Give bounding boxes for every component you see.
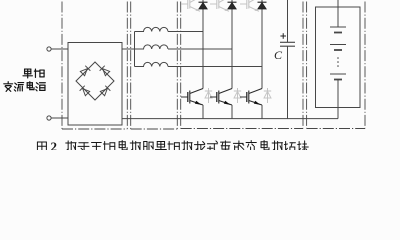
wire leg 2 emitter to DC- bus	[231, 105, 233, 119]
boundary box3 right edge	[302, 2, 304, 129]
wire phase B to inverter leg	[168, 48, 232, 50]
wire leg 1 emitter to DC- bus	[202, 105, 204, 119]
diode D2t top stub	[231, 0, 233, 2]
transistor S2b gate lead	[210, 96, 217, 98]
bridge diode D2 (right->top)	[100, 66, 110, 76]
diode D2t (upper, black)	[228, 2, 237, 9]
battery ellipsis dots	[337, 57, 339, 67]
battery cell 1 long plate	[330, 26, 346, 28]
boundary box2 bottom edge	[131, 128, 178, 130]
transistor S1b gate lead	[181, 96, 188, 98]
diode D3b (lower, faint)	[264, 88, 271, 103]
bridge diode D3 (bottom->left)	[80, 86, 90, 96]
diode D1b (lower, faint)	[205, 88, 212, 103]
caption: figure 2 title (clipped)	[37, 139, 308, 154]
svg-text:2: 2	[51, 139, 58, 150]
wire leg 3 emitter to DC- bus	[261, 105, 263, 119]
battery cell 1 short plate	[334, 32, 342, 34]
wire battery positive lead	[337, 0, 339, 27]
transistor S3b gate lead	[240, 96, 247, 98]
boundary box4 (battery pack) left edge	[306, 2, 308, 129]
boundary box4 right edge	[364, 2, 366, 129]
wire phase C to inverter leg	[168, 66, 262, 68]
boundary box1 bottom edge	[62, 128, 127, 130]
diode D3t top stub	[261, 0, 263, 2]
boundary box3 (inverter) left edge	[180, 2, 182, 129]
wire rectifier output to winding neutral	[122, 48, 135, 50]
bridge diamond	[76, 62, 114, 100]
transistor S3t (upper IGBT, faint)	[240, 0, 259, 11]
label: AC source text line2 (jiao-liu-dian-yuan)	[4, 82, 45, 92]
label: AC source text line1 (dan-xiang)	[23, 69, 44, 78]
wire AC top terminal to rectifier box	[51, 48, 68, 50]
transistor S3b (lower IGBT, black)	[247, 89, 262, 106]
wire battery negative lead	[337, 80, 339, 119]
battery cell N long plate	[330, 73, 346, 75]
transistor S1b (lower IGBT, black)	[188, 89, 203, 106]
diode D1t top stub	[202, 0, 204, 2]
battery cell 2 short plate	[334, 49, 342, 51]
inductor winding phase A	[135, 27, 168, 31]
terminal circle top (AC L)	[47, 47, 51, 51]
wire winding neutral vertical	[134, 32, 136, 67]
inductor winding phase C	[135, 62, 168, 66]
battery cell N short plate	[334, 79, 342, 81]
wire capacitor top lead	[287, 0, 289, 42]
boundary box2 (motor windings) left edge	[130, 2, 132, 130]
inductor winding phase B	[135, 45, 168, 49]
capacitor C plates	[280, 42, 295, 46]
battery cell 2 long plate	[330, 44, 346, 46]
boundary box1 right edge	[126, 2, 128, 130]
terminal circle bottom (AC N)	[47, 116, 51, 120]
diode D2b (lower, faint)	[234, 88, 241, 103]
wire DC- bus	[122, 118, 338, 120]
wire leg 3 vertical (midpoint)	[261, 9, 263, 89]
wire leg 1 vertical (midpoint)	[202, 9, 204, 89]
boundary box3 bottom edge	[181, 128, 303, 130]
wire phase A to inverter leg	[168, 31, 203, 33]
battery pack outer box	[316, 7, 361, 108]
svg-text:C: C	[274, 48, 283, 62]
boundary box2 right edge	[176, 2, 178, 130]
label + (capacitor polarity)	[280, 33, 286, 39]
transistor S1t (upper IGBT, faint)	[181, 0, 200, 11]
bridge diode D4 (bottom->right)	[100, 86, 110, 96]
bridge diode D1 (left->top)	[80, 66, 90, 76]
wire AC bottom terminal to rectifier box	[51, 117, 68, 119]
transistor S2t (upper IGBT, faint)	[210, 0, 229, 11]
diode D1t (upper, black)	[199, 2, 208, 9]
diode D3t (upper, black)	[258, 2, 267, 9]
wire leg 2 vertical (midpoint)	[231, 9, 233, 89]
bridge rectifier outer box	[68, 43, 122, 126]
wire capacitor bottom lead	[287, 46, 289, 118]
transistor S2b (lower IGBT, black)	[217, 89, 232, 106]
label C (capacitor)	[274, 48, 283, 62]
boundary box4 bottom edge	[307, 128, 365, 130]
boundary box1 (rectifier unit) left edge	[61, 2, 63, 130]
